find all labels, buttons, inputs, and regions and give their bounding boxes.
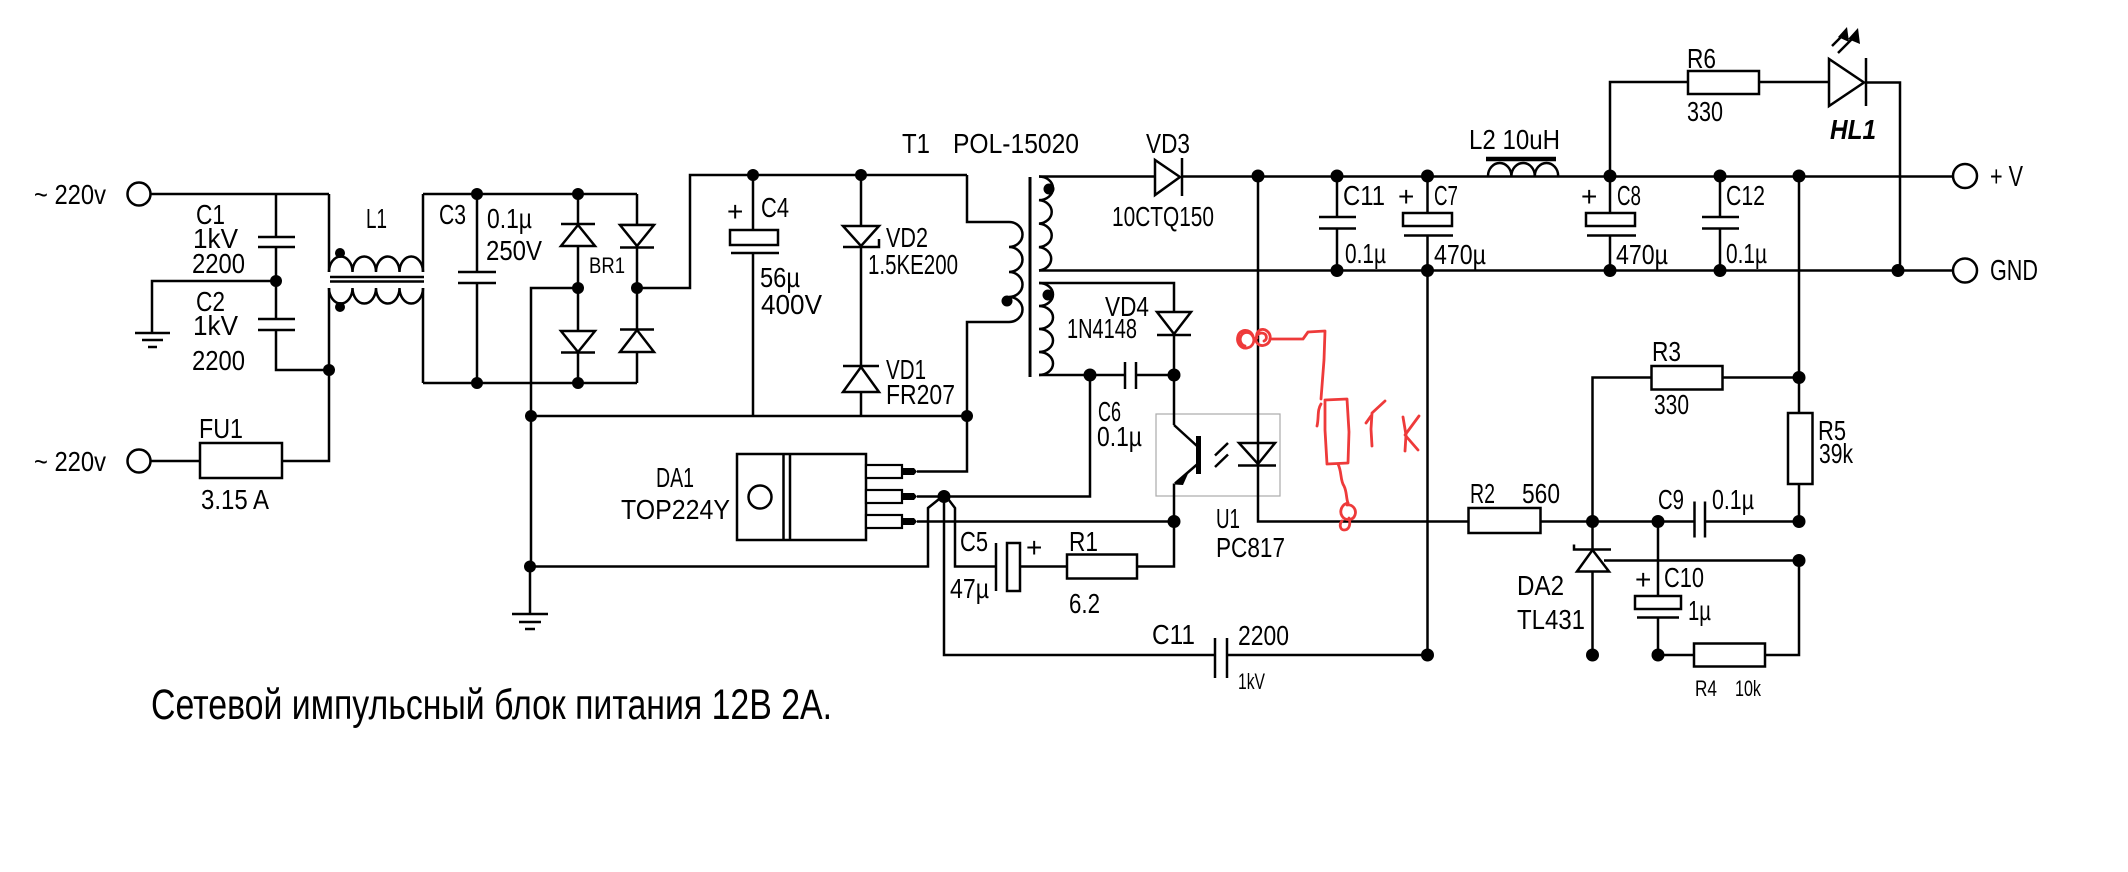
transformer T1 [902, 128, 1079, 416]
svg-text:1kV: 1kV [193, 310, 238, 341]
svg-text:+: + [1635, 564, 1651, 595]
capacitor C4 [727, 175, 822, 416]
svg-text:R3: R3 [1652, 336, 1681, 367]
capacitor C8 [1581, 170, 1668, 278]
node VD3 out [1252, 170, 1265, 183]
wire top rail right of L1 [423, 193, 637, 196]
node TL431 anode [1586, 649, 1599, 662]
svg-text:+ V: + V [1990, 161, 2023, 193]
wire secondary top [1039, 175, 1155, 178]
svg-text:FU1: FU1 [199, 413, 243, 444]
capacitor C10 [1635, 522, 1711, 656]
svg-text:C10: C10 [1664, 562, 1704, 593]
svg-text:400V: 400V [761, 289, 822, 320]
svg-text:0.1µ: 0.1µ [1097, 421, 1142, 452]
pin 1 (drain) [866, 465, 917, 478]
svg-text:1kV: 1kV [1238, 669, 1265, 694]
fuse FU1 [199, 413, 282, 515]
svg-text:C8: C8 [1617, 180, 1641, 211]
svg-text:~ 220v: ~ 220v [34, 446, 106, 477]
node ref/divider [1793, 554, 1806, 567]
svg-text:10CTQ150: 10CTQ150 [1112, 201, 1214, 232]
svg-text:R4: R4 [1695, 676, 1717, 701]
svg-text:POL-15020: POL-15020 [953, 128, 1079, 159]
svg-text:2200: 2200 [1238, 620, 1289, 651]
svg-text:C5: C5 [960, 526, 988, 557]
node primary return right [961, 410, 973, 422]
svg-text:39k: 39k [1819, 438, 1854, 469]
wire BR1+ to power rail [637, 175, 967, 288]
node bottom rail / gnd drop [1421, 649, 1434, 662]
wire secondary bottom (GND rail) [1039, 269, 1953, 272]
svg-text:FR207: FR207 [886, 379, 955, 410]
terminal ~220v bottom [34, 446, 151, 477]
wire BR1- to ground symbol [530, 416, 533, 567]
svg-text:L2 10uH: L2 10uH [1469, 124, 1560, 155]
wire source pin to node [917, 495, 944, 498]
pin 2 (source) [866, 490, 917, 503]
svg-text:VD3: VD3 [1146, 128, 1190, 159]
svg-text:250V: 250V [486, 235, 542, 266]
node R3/R5 [1793, 371, 1806, 384]
svg-text:+: + [727, 196, 743, 227]
+V rail [1182, 175, 1953, 178]
svg-text:560: 560 [1522, 478, 1560, 509]
inductor L2 [1469, 124, 1560, 176]
wire TL431 ref [1604, 559, 1799, 562]
resistor R6 [1687, 43, 1759, 127]
svg-text:~ 220v: ~ 220v [34, 179, 106, 210]
svg-text:0.1µ: 0.1µ [487, 203, 532, 234]
node divider feed [1793, 170, 1806, 183]
node C10 bottom [1652, 649, 1665, 662]
wire primary return [531, 415, 967, 418]
diode VD3 [1112, 128, 1214, 232]
svg-text:C7: C7 [1434, 180, 1458, 211]
svg-text:T1: T1 [902, 128, 930, 159]
svg-text:BR1: BR1 [589, 253, 625, 278]
svg-text:470µ: 470µ [1434, 239, 1486, 270]
svg-text:PC817: PC817 [1216, 532, 1285, 563]
wire R6 to LED [1759, 81, 1829, 84]
terminal +V [1953, 161, 2023, 193]
svg-text:DA2: DA2 [1517, 570, 1564, 601]
terminal ~220v top [34, 179, 151, 210]
capacitor C1 [192, 194, 295, 281]
choke L1 [329, 194, 424, 383]
bridge BR1 [561, 188, 654, 389]
svg-text:R6: R6 [1687, 43, 1716, 74]
node feedback right [1793, 515, 1806, 528]
wire source to aux winding [944, 375, 1090, 497]
wire BR1- down [531, 288, 578, 416]
IC DA1 TOP224Y [621, 454, 866, 540]
wire fuse to node [282, 370, 329, 461]
opto LED [1238, 176, 1468, 522]
svg-text:3.15 A: 3.15 A [201, 484, 269, 515]
node control [1168, 515, 1181, 528]
svg-text:R1: R1 [1069, 526, 1098, 557]
red annotation: scribble blob [1238, 329, 1271, 348]
red annotation: wire to resistor [1270, 331, 1325, 399]
wire R4 to divider [1765, 561, 1799, 656]
capacitor C2 [192, 281, 329, 376]
title [151, 681, 832, 729]
resistor R5 [1788, 378, 1854, 522]
svg-text:C11: C11 [1343, 180, 1385, 211]
capacitor C3 [439, 194, 542, 383]
wire divider feed down [1798, 176, 1801, 378]
node C4 top / VD2 top [747, 169, 867, 181]
LED HL1 [1829, 27, 1900, 271]
diode VD4 [1067, 291, 1191, 375]
svg-text:Сетевой импульсный блок питани: Сетевой импульсный блок питания 12В 2А. [151, 681, 832, 729]
svg-text:GND: GND [1990, 255, 2038, 287]
svg-text:HL1: HL1 [1830, 114, 1876, 145]
node C1/C2 [270, 275, 282, 287]
node C2/L1/fuse [323, 364, 335, 376]
node source [938, 490, 951, 503]
wire aux bottom [1039, 374, 1090, 377]
svg-text:2200: 2200 [192, 345, 245, 376]
capacitor C9 [1658, 484, 1799, 538]
shunt DA2 TL431 [1517, 522, 1611, 656]
diode VD1 [843, 354, 955, 416]
node aux bottom [1084, 369, 1097, 382]
wire drain to transformer [917, 416, 967, 472]
node BR1 mid left / mid right [572, 282, 643, 294]
node C3 top [471, 188, 483, 200]
svg-text:1N4148: 1N4148 [1067, 313, 1137, 344]
svg-text:+: + [1398, 181, 1414, 212]
wire aux top to VD4 [1039, 283, 1174, 312]
wire source to Y-cap line [944, 497, 1215, 656]
svg-text:10k: 10k [1735, 676, 1762, 701]
pin 3 (control) [866, 515, 917, 528]
svg-text:1.5KE200: 1.5KE200 [868, 249, 958, 280]
capacitor C5 [950, 526, 1042, 604]
svg-text:C12: C12 [1726, 180, 1765, 211]
diode VD2 [843, 175, 958, 366]
wire control pin [917, 520, 1174, 523]
node BR1- bottom [525, 410, 537, 422]
red annotation: text 1k [1366, 401, 1419, 451]
svg-text:470µ: 470µ [1616, 239, 1668, 270]
svg-text:TL431: TL431 [1517, 604, 1585, 635]
capacitor C7 [1398, 170, 1486, 278]
svg-text:C9: C9 [1658, 484, 1684, 515]
svg-text:0.1µ: 0.1µ [1726, 238, 1767, 269]
capacitor C6 [1090, 362, 1174, 452]
terminal GND [1953, 255, 2038, 287]
node VD4/C6/opto [1168, 369, 1181, 382]
svg-text:6.2: 6.2 [1069, 588, 1100, 619]
wire R6 branch [1610, 82, 1688, 176]
ground (primary) [512, 567, 548, 630]
svg-text:1µ: 1µ [1688, 595, 1711, 626]
svg-text:C4: C4 [761, 192, 789, 223]
svg-text:C3: C3 [439, 199, 466, 230]
svg-text:+: + [1026, 532, 1042, 563]
svg-text:47µ: 47µ [950, 573, 989, 604]
svg-text:L1: L1 [366, 203, 387, 234]
wire hop right leg to C5 [947, 498, 996, 567]
optocoupler U1 PC817 [1156, 375, 1285, 563]
svg-text:DA1: DA1 [656, 462, 694, 493]
svg-text:TOP224Y: TOP224Y [621, 494, 730, 525]
wire primary ground (hop over) [530, 498, 941, 567]
node primary ground [524, 561, 536, 573]
node HL1 to GND [1892, 264, 1905, 277]
resistor R1 [1067, 526, 1137, 619]
wire bottom rail [423, 382, 637, 385]
svg-text:0.1µ: 0.1µ [1345, 238, 1386, 269]
svg-text:R2: R2 [1470, 478, 1495, 509]
svg-text:+: + [1581, 181, 1597, 212]
wire R1 to control [1137, 522, 1174, 567]
red annotation: lower lead and loop [1338, 464, 1355, 530]
node C3 bottom [471, 377, 483, 389]
wire bottom rail to R4 [1658, 654, 1694, 657]
capacitor C12 [1702, 170, 1767, 278]
svg-text:0.1µ: 0.1µ [1712, 484, 1754, 515]
wire R3 to TL431 cathode [1593, 378, 1652, 522]
node C10 top [1652, 515, 1665, 528]
wire C7 ground to bottom rail [1426, 271, 1429, 656]
resistor R4 [1694, 644, 1765, 702]
ground (input) [135, 333, 170, 347]
capacitor C11 (output) [1319, 170, 1386, 278]
svg-text:2200: 2200 [192, 248, 245, 279]
svg-text:330: 330 [1687, 96, 1723, 127]
wire terminal to fuse [151, 460, 200, 463]
wire R2 to TL431 node [1541, 520, 1593, 523]
wire cathode node to C9 [1593, 520, 1695, 523]
wire to ground stub [152, 281, 276, 333]
red annotation: 1k resistor box [1317, 399, 1349, 464]
resistor R2 [1469, 478, 1561, 533]
wire C5 to R1 [1020, 565, 1067, 568]
svg-text:330: 330 [1654, 389, 1689, 420]
Y-capacitor C11 (2200/1kV) [1152, 619, 1428, 694]
resistor R3 [1652, 336, 1800, 420]
svg-text:C11: C11 [1152, 619, 1195, 650]
wire top rail left [151, 193, 329, 196]
node TL431 cathode [1586, 515, 1599, 528]
svg-text:U1: U1 [1216, 503, 1240, 534]
